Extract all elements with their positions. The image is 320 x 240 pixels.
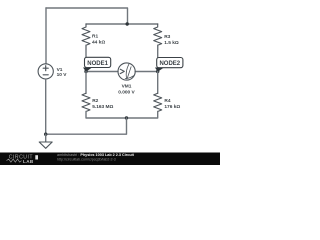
label VM1 0.000 V: [118, 83, 135, 95]
ground: [39, 142, 52, 148]
svg-text:5.163 MΩ: 5.163 MΩ: [92, 104, 113, 110]
wire NODE1 to voltmeter: [86, 71, 118, 73]
wire NODE1 down to R2: [85, 72, 87, 94]
svg-text:44 kΩ: 44 kΩ: [92, 40, 105, 46]
voltmeter VM1: [118, 63, 135, 80]
resistor R2: [82, 93, 90, 111]
svg-text:R3: R3: [164, 34, 170, 40]
voltage source V1: [38, 64, 53, 79]
label R2 5.163 MOhm: [92, 98, 113, 110]
wire R1 bottom to NODE1 junction: [85, 45, 87, 71]
label R4 176 kOhm: [164, 98, 180, 110]
footer bar: [0, 153, 220, 166]
flag NODE2: [155, 58, 183, 72]
node top junction: [126, 22, 129, 25]
resistor R4: [154, 93, 162, 111]
wire ground stub: [45, 134, 47, 142]
svg-text:R2: R2: [92, 98, 98, 104]
wire R4 bottom stub: [127, 112, 158, 119]
flag NODE1: [83, 57, 111, 72]
svg-text:ambitshastri : Physics 1003 La: ambitshastri : Physics 1003 Lab 2 2.3 Ci…: [57, 153, 135, 157]
node NODE1 junction dot: [84, 70, 87, 73]
svg-text:1.5 kΩ: 1.5 kΩ: [164, 40, 179, 46]
label V1 10 V: [57, 67, 68, 78]
logo CircuitLab: [7, 154, 39, 164]
svg-text:VM1: VM1: [122, 83, 132, 89]
wire left rail lower: [45, 79, 47, 134]
wire R3 bottom to NODE2 junction: [157, 45, 159, 71]
svg-text:176 kΩ: 176 kΩ: [164, 104, 180, 110]
node NODE2 junction dot: [156, 70, 159, 73]
svg-text:10 V: 10 V: [57, 72, 68, 78]
wire top horizontal R1-R3: [86, 23, 158, 25]
svg-text:LAB: LAB: [23, 159, 34, 164]
wire R2 bottom stub: [86, 112, 127, 119]
svg-text:NODE2: NODE2: [159, 61, 180, 67]
wire left rail upper: [45, 8, 47, 64]
svg-text:http://circuitlab.com/c/pcq3b/: http://circuitlab.com/c/pcq3b/lab2-2-3: [57, 158, 116, 162]
resistor R3: [154, 24, 162, 50]
node ground junction: [44, 133, 47, 136]
wire NODE2 down to R4: [157, 72, 159, 94]
svg-text:0.000 V: 0.000 V: [118, 90, 135, 96]
wire top-left rail: [46, 8, 128, 24]
resistor R1: [82, 24, 90, 50]
wire voltmeter to NODE2: [135, 71, 158, 73]
svg-text:R4: R4: [164, 98, 170, 104]
label R1 44 kOhm: [92, 34, 105, 46]
node bottom-mid junction: [125, 116, 128, 119]
wire mid drop to bottom rail: [46, 118, 127, 134]
svg-text:R1: R1: [92, 34, 98, 40]
label R3 1.5 kOhm: [164, 34, 179, 46]
svg-text:NODE1: NODE1: [87, 61, 108, 67]
